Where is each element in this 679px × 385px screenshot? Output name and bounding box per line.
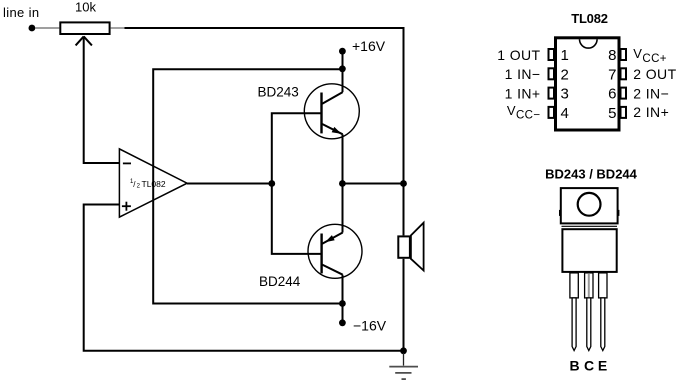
svg-text:1 IN+: 1 IN+ xyxy=(505,86,541,102)
svg-text:1: 1 xyxy=(561,47,569,64)
svg-text:10k: 10k xyxy=(75,0,96,15)
svg-text:2: 2 xyxy=(561,66,569,83)
svg-text:BD244: BD244 xyxy=(259,274,301,289)
svg-text:BD243: BD243 xyxy=(258,84,299,99)
svg-text:5: 5 xyxy=(608,105,616,122)
svg-text:8: 8 xyxy=(608,47,616,64)
svg-text:2 OUT: 2 OUT xyxy=(633,66,676,82)
svg-text:TL082: TL082 xyxy=(142,179,166,189)
svg-text:BD243 / BD244: BD243 / BD244 xyxy=(545,167,638,182)
svg-text:4: 4 xyxy=(561,105,569,122)
svg-text:C: C xyxy=(584,358,594,374)
svg-text:1 IN−: 1 IN− xyxy=(505,66,541,82)
svg-text:7: 7 xyxy=(608,66,616,83)
svg-text:6: 6 xyxy=(608,86,616,103)
svg-text:B: B xyxy=(569,358,579,374)
svg-text:E: E xyxy=(598,358,607,374)
svg-text:−16V: −16V xyxy=(353,318,387,334)
svg-text:1 OUT: 1 OUT xyxy=(497,47,540,63)
svg-text:line in: line in xyxy=(3,5,39,20)
svg-text:3: 3 xyxy=(561,86,569,103)
svg-text:2 IN−: 2 IN− xyxy=(633,86,669,102)
svg-text:TL082: TL082 xyxy=(571,11,608,26)
svg-text:+16V: +16V xyxy=(352,38,386,54)
svg-text:2 IN+: 2 IN+ xyxy=(633,104,669,120)
